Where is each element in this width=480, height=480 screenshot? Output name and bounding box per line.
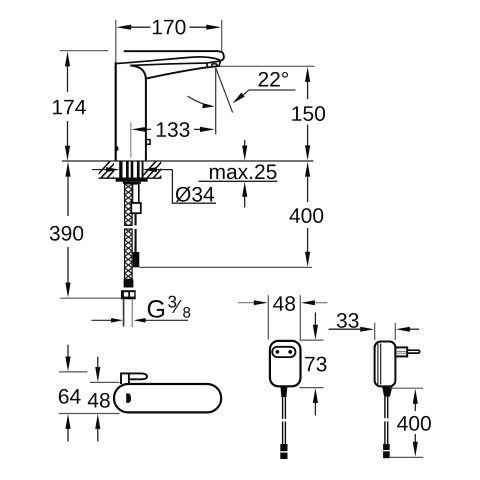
- adapter front view: body: [270, 341, 301, 386]
- adapter front view: cable: [283, 397, 286, 444]
- faucet spout inner line L3: [130, 63, 206, 65]
- angle 22deg: arc with arrowhead: [188, 96, 211, 106]
- dim 400 (faucet hose): dimension line + arrows: [307, 175, 309, 255]
- adapter side view: cable connector: [383, 444, 390, 458]
- dim 400 (adapter cable): extension lines: [390, 387, 423, 389]
- braided supply hose upper part: [125, 184, 133, 226]
- dim max.25: underline: [198, 180, 277, 182]
- dim max.25: top arrow: [244, 140, 246, 148]
- angle 22deg: text: [259, 72, 288, 87]
- dim G3/8: arrows and leaders: [92, 319, 189, 321]
- adapter front view: socket holes: [276, 350, 280, 354]
- dim 150: dimension line + arrows: [307, 79, 309, 147]
- mounting washer under counter: [116, 178, 148, 182]
- angle 22deg: leader line with arrowhead: [237, 90, 296, 100]
- dim 64: arrows outside: [67, 345, 69, 359]
- dim 170: extension line left: [115, 20, 117, 63]
- top view: spout finger: [121, 373, 147, 384]
- angle 22deg: vertical extension line from outlet: [215, 68, 217, 135]
- countertop hatched section right: [139, 159, 177, 180]
- dim 48 (top view): text: [88, 393, 110, 408]
- faucet spout top line L1 with tip: [124, 51, 224, 61]
- hose crimp collar: [124, 279, 134, 287]
- dim 170: text: [153, 20, 186, 35]
- dim 33: text: [337, 313, 359, 328]
- faucet spout inner line L2: [116, 57, 220, 64]
- faucet side view: body back edge: [115, 62, 117, 161]
- cable fitting: [131, 203, 141, 213]
- faucet side view: body front edge with top curve: [130, 66, 146, 162]
- dim G3/8: text: [148, 300, 164, 318]
- angle 22deg: tilted stream line: [216, 68, 233, 112]
- dim 73: arrows outside: [314, 312, 316, 327]
- sensor cable tube: [133, 184, 139, 203]
- dim Ø34: text: [176, 186, 214, 202]
- adapter side view: body: [375, 342, 396, 387]
- dim Ø34: arrows at shank: [92, 169, 172, 171]
- dim 33: leader + arrows + ticks: [329, 328, 360, 330]
- adapter front view: strain relief neck: [280, 386, 287, 397]
- faucet spout underside line L4: [146, 67, 207, 78]
- sensor dot on body left edge: [116, 146, 119, 151]
- G3/8 pipe left edge: [123, 299, 125, 326]
- top view: faucet base stadium outline: [114, 384, 221, 412]
- countertop hatched section left: [93, 159, 131, 180]
- dim 48 (top view): arrows outside: [97, 357, 99, 370]
- dim 150: text: [292, 106, 325, 121]
- outlet aerator slot: [212, 64, 217, 67]
- dim 390: bottom extension line: [60, 297, 121, 299]
- dim 48 (top view): top extension line: [90, 381, 120, 383]
- dim 170: dimension line + arrows: [129, 26, 208, 28]
- dim 64: text: [59, 389, 81, 404]
- cable lower segment: [135, 229, 137, 252]
- clip detail on body right edge: [146, 140, 150, 145]
- cable upper segment: [135, 213, 137, 225]
- countertop bottom line: [99, 177, 162, 179]
- hose nut: [121, 290, 136, 299]
- adapter front view: socket recess: [272, 347, 295, 357]
- adapter side view: strain relief neck: [382, 386, 393, 396]
- dim 174: text: [53, 100, 86, 114]
- adapter front view: cable connector: [280, 444, 287, 459]
- dim 64/48: bottom extension line: [59, 413, 120, 415]
- top view: sensor window spot: [126, 393, 131, 403]
- dim 400 (adapter cable): text: [397, 416, 431, 431]
- dim 390: dimension line + arrows: [67, 175, 69, 284]
- dim 150/400: outlet extension line: [220, 65, 315, 67]
- adapter side view: case seam lines: [377, 344, 379, 385]
- G3/8 pipe right edge: [131, 299, 133, 327]
- dim 174: top extension line: [60, 50, 109, 52]
- dim 133: extension tick at faucet axis: [130, 123, 132, 158]
- dim Ø34: leader corner and underline: [172, 170, 216, 204]
- cable plug connector: [133, 252, 140, 267]
- dim max.25: text: [210, 164, 277, 179]
- dim 73: extension lines: [300, 339, 324, 341]
- countertop top line (extends to max.25 reference): [62, 160, 314, 162]
- adapter side view: cable: [385, 397, 388, 444]
- dim 390: text: [50, 226, 83, 241]
- dim 64: top extension line: [59, 371, 88, 373]
- dim 73: text: [305, 357, 326, 372]
- spout outlet piece: [207, 61, 221, 68]
- dim 400 (faucet hose): text: [289, 208, 323, 223]
- dim 48 (adapter): text: [273, 296, 295, 311]
- dim 48 (adapter): leaders, arrows, ticks: [238, 302, 255, 304]
- braided supply hose lower part: [125, 229, 133, 279]
- dim 133: text: [157, 122, 190, 137]
- adapter side view: plug pin: [407, 350, 420, 353]
- dim 400 (adapter cable): dimension line + arrows: [414, 401, 416, 445]
- adapter side view: plug stub: [395, 347, 407, 356]
- dim 133: dimension line + arrows: [144, 128, 203, 130]
- washer step: [123, 182, 141, 184]
- dim max.25: bottom arrow: [244, 196, 246, 208]
- shank bars through counter: [119, 161, 143, 178]
- dim 400 (faucet hose): bottom extension line from cable plug: [139, 266, 312, 268]
- dim 170: extension line right: [221, 20, 223, 51]
- dim 174: dimension line + arrows: [67, 64, 69, 148]
